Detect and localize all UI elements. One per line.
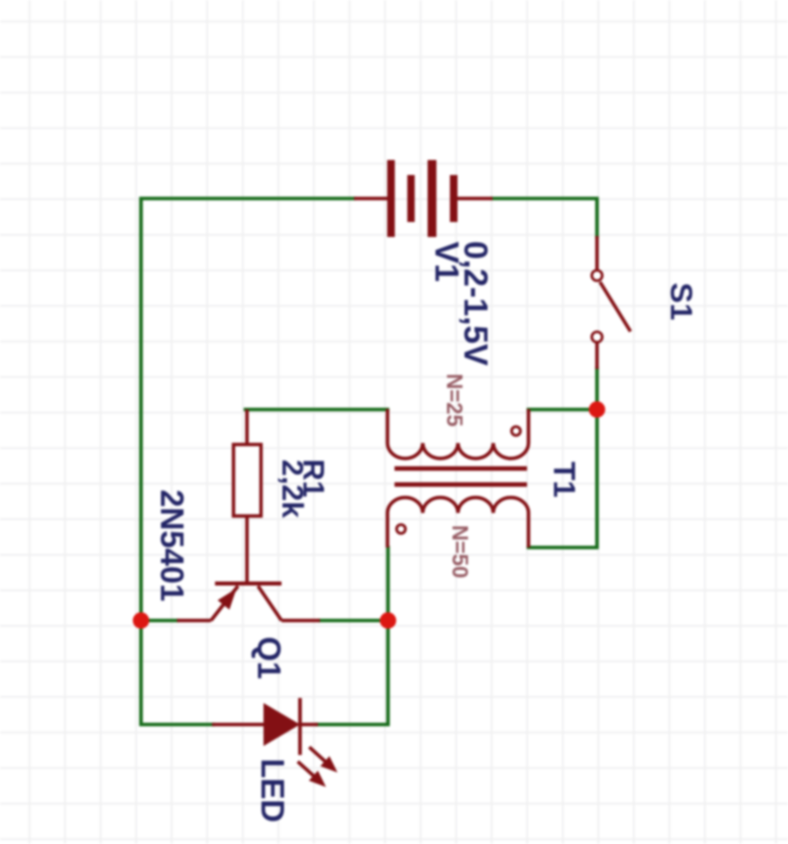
LED triangle: [264, 703, 301, 746]
transformer T1 lower phase dot: [397, 525, 406, 534]
junction dot left rail / emitter: [133, 612, 149, 628]
wire junction to upper winding right terminal: [529, 408, 598, 412]
wire right rail junction down to lower winding right terminal: [529, 410, 598, 548]
svg-text:2,2k: 2,2k: [276, 460, 309, 519]
svg-text:2N5401: 2N5401: [154, 490, 190, 602]
battery V1 left pin: [354, 197, 389, 201]
svg-text:T1: T1: [547, 462, 582, 498]
battery V1 plate (short): [450, 175, 458, 222]
wire collector to right rail: [320, 619, 388, 623]
LED light arrow: [293, 757, 330, 793]
resistor R1 body: [234, 445, 262, 517]
transistor Q1 base bar: [215, 582, 282, 586]
LED cathode bar: [298, 698, 302, 755]
transformer T1 core bar: [395, 466, 528, 471]
transistor Q1 collector: [258, 586, 282, 621]
transistor Q1 emitter: [211, 586, 238, 621]
battery V1 plate (long): [428, 160, 437, 237]
switch S1 blade: [600, 282, 631, 332]
battery V1 plate (short): [407, 175, 414, 222]
LED anode pin: [212, 723, 265, 727]
resistor R1 bottom pin: [245, 516, 249, 585]
battery V1 plate (long): [387, 160, 395, 237]
switch S1 bottom contact: [592, 332, 602, 342]
LED cathode pin: [300, 723, 318, 727]
junction dot right rail / collector: [380, 612, 396, 628]
switch S1 top pin: [595, 236, 599, 270]
svg-text:Q1: Q1: [251, 637, 287, 680]
wire lower winding left terminal down to LED cathode: [317, 548, 388, 725]
wire emitter to left rail: [141, 619, 177, 623]
svg-text:S1: S1: [664, 283, 699, 321]
wire left rail (battery minus to LED anode): [141, 199, 354, 725]
wire resistor top to upper winding left terminal: [246, 408, 388, 412]
battery V1 right pin: [458, 197, 493, 201]
wire switch bottom to junction: [595, 369, 599, 410]
wire battery plus to switch top: [493, 199, 598, 237]
switch S1 top contact: [592, 270, 602, 280]
svg-text:N=50: N=50: [448, 525, 473, 578]
transformer T1 core bar: [395, 482, 528, 487]
svg-text:N=25: N=25: [442, 374, 467, 427]
transformer T1 upper phase dot: [512, 427, 521, 436]
switch S1 bottom pin: [595, 343, 599, 369]
transformer T1 upper winding N=25: [388, 409, 529, 459]
LED light arrow: [305, 742, 342, 778]
svg-text:V1: V1: [429, 242, 466, 282]
svg-text:LED: LED: [255, 759, 291, 823]
transistor Q1 emitter arrow: [218, 589, 237, 610]
junction dot switch / winding: [589, 401, 605, 417]
transistor Q1 collector stub: [282, 619, 321, 623]
resistor R1 top pin: [245, 410, 249, 446]
transformer T1 lower winding N=50: [388, 497, 529, 547]
transistor Q1 emitter stub: [177, 619, 211, 623]
